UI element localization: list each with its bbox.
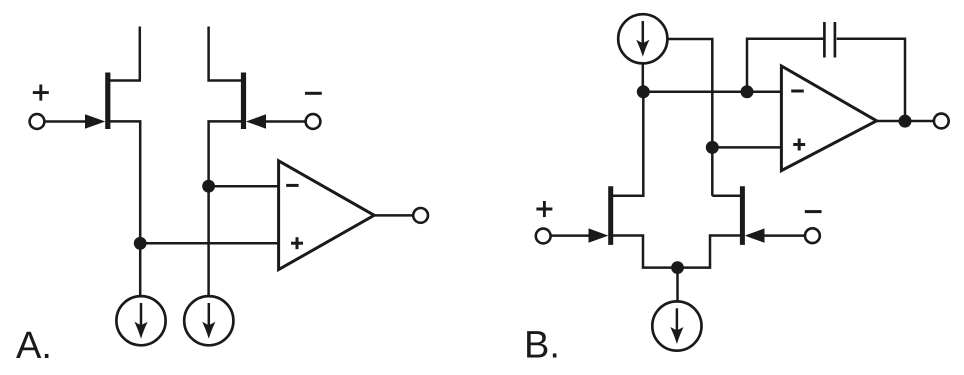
node non-inverting junction dot A [134, 237, 147, 250]
transistor Q1 drain lead [109, 27, 140, 81]
current source I3 (top of circuit B) [618, 14, 667, 63]
wire capacitor C1 right lead to output node [837, 39, 905, 121]
node IN+ terminal B [536, 229, 551, 244]
transistor Q3 gate arrow [589, 228, 609, 242]
capacitor C1 plates [824, 22, 835, 58]
current source I4 [652, 301, 701, 350]
wire [266, 120, 306, 123]
label - (circuit A negative input) [305, 92, 322, 95]
transistor Q4 bar [740, 186, 745, 245]
wire op-amp U2 non-inverting input [712, 146, 781, 149]
transistor Q3 bar [608, 186, 613, 245]
wire [44, 120, 86, 123]
wire op-amp U2 inverting input net [643, 91, 781, 94]
label + (circuit B positive input) [536, 201, 552, 217]
label - (circuit B negative input) [805, 210, 822, 213]
transistor Q4 drain lead [712, 195, 741, 198]
wire [551, 234, 589, 237]
wire tail node to current source I4 [676, 268, 679, 301]
node IN- terminal B [805, 228, 820, 243]
wire op-amp U2 output [877, 120, 934, 123]
transistor Q1 source lead [109, 121, 140, 296]
transistor Q1 gate arrow [85, 114, 105, 128]
wire current source I3 right lead to node B [667, 39, 712, 147]
transistor Q1 bar [105, 73, 110, 130]
node non-inverting junction dot B [706, 141, 719, 154]
current source I1 [116, 296, 165, 345]
transistor Q2 bar [241, 73, 246, 130]
node IN+ terminal A [30, 114, 45, 129]
transistor Q4 gate arrow [745, 228, 765, 242]
transistor Q3 drain lead [612, 92, 643, 196]
op-amp U1 minus sign [286, 184, 298, 187]
svg-text:A.: A. [16, 325, 52, 367]
node output junction dot B [899, 115, 912, 128]
node capacitor tap junction dot [741, 85, 754, 98]
svg-text:B.: B. [524, 325, 560, 367]
transistor Q2 source lead [209, 121, 243, 296]
node inverting junction dot B (top of Q3 drain) [637, 85, 650, 98]
node inverting junction dot A [202, 180, 215, 193]
node OUT terminal A [413, 208, 428, 223]
op-amp U2 minus sign [791, 90, 804, 93]
wire op-amp U1 non-inverting input [140, 242, 278, 245]
transistor Q2 gate arrow [246, 114, 266, 128]
node OUT terminal B [934, 114, 949, 129]
wire op-amp U1 output [374, 214, 413, 217]
op-amp U2 triangle [781, 66, 876, 171]
node IN- terminal A [306, 114, 321, 129]
wire [765, 234, 806, 237]
current source I2 [184, 296, 233, 345]
transistor Q2 drain lead [209, 27, 243, 81]
label + (circuit A positive input) [33, 85, 49, 101]
node source junction dot B [671, 261, 684, 274]
transistor Q4 source lead [684, 236, 742, 268]
op-amp U1 plus sign [291, 237, 303, 249]
wire capacitor C1 left lead [747, 39, 823, 92]
op-amp U1 triangle [279, 161, 375, 270]
wire current source I3 bottom lead [642, 63, 645, 91]
op-amp U2 plus sign [793, 139, 805, 151]
transistor Q3 source lead [612, 236, 672, 268]
wire op-amp U1 inverting input [209, 185, 279, 188]
wire transistor Q4 drain vertical [711, 147, 714, 195]
